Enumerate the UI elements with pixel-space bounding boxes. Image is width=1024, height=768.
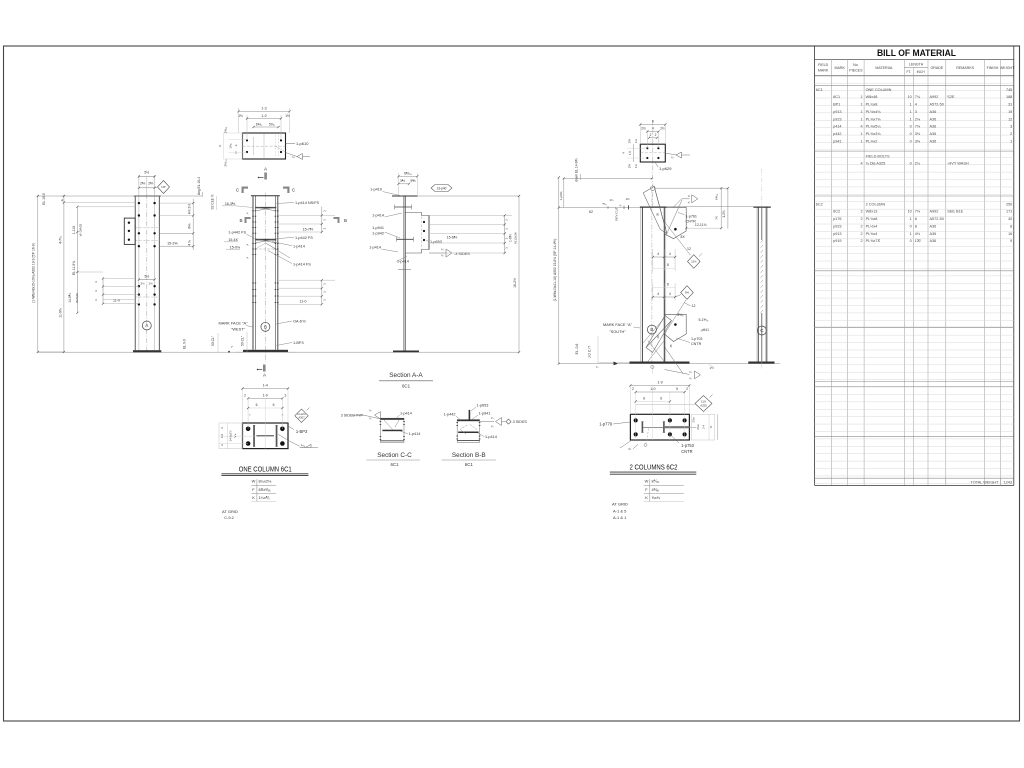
svg-text:6⅕₁: 6⅕₁ bbox=[256, 122, 263, 126]
svg-text:3⅗: 3⅗ bbox=[400, 179, 405, 183]
svg-text:1-p414: 1-p414 bbox=[409, 432, 421, 436]
svg-text:1-p442: 1-p442 bbox=[444, 413, 456, 417]
svg-text:2¼: 2¼ bbox=[915, 162, 921, 166]
svg-text:50 CL": 50 CL" bbox=[211, 335, 215, 346]
svg-text:LENGTH: LENGTH bbox=[909, 63, 924, 67]
svg-text:1½: 1½ bbox=[238, 114, 243, 118]
svg-text:8⅓₆: 8⅓₆ bbox=[678, 313, 685, 317]
svg-text:1-0: 1-0 bbox=[220, 434, 224, 439]
svg-text:6C1: 6C1 bbox=[390, 462, 399, 467]
svg-text:A36: A36 bbox=[930, 125, 937, 129]
svg-text:MARK FACE "A": MARK FACE "A" bbox=[603, 322, 633, 327]
svg-text:A-1 & 5: A-1 & 5 bbox=[613, 508, 627, 513]
svg-text:ONE COLUMN 6C1: ONE COLUMN 6C1 bbox=[239, 464, 292, 473]
svg-text:A36: A36 bbox=[930, 140, 937, 144]
svg-text:S2 CLE ½: S2 CLE ½ bbox=[211, 194, 215, 209]
svg-text:FINISH: FINISH bbox=[987, 66, 999, 70]
svg-text:W DIA25: W DIA25 bbox=[78, 224, 82, 237]
svg-text:0: 0 bbox=[910, 125, 912, 129]
svg-text:⅜x⅜: ⅜x⅜ bbox=[652, 495, 661, 500]
svg-text:A36: A36 bbox=[930, 117, 937, 121]
svg-text:A307: A307 bbox=[298, 416, 305, 420]
svg-text:1-p653: 1-p653 bbox=[477, 404, 489, 408]
svg-text:K: K bbox=[252, 495, 255, 500]
svg-text:BP1: BP1 bbox=[833, 103, 840, 107]
svg-text:4: 4 bbox=[61, 198, 63, 202]
svg-text:B: B bbox=[264, 324, 267, 329]
svg-text:1-BP3: 1-BP3 bbox=[296, 429, 308, 434]
svg-text:Section A-A: Section A-A bbox=[389, 372, 423, 379]
svg-text:1½: 1½ bbox=[628, 150, 632, 155]
svg-text:1-p414: 1-p414 bbox=[369, 246, 381, 250]
svg-text:0: 0 bbox=[910, 224, 912, 228]
svg-text:6: 6 bbox=[256, 403, 258, 407]
svg-text:p923: p923 bbox=[833, 117, 841, 121]
svg-text:188: 188 bbox=[1006, 95, 1012, 99]
svg-text:1: 1 bbox=[860, 132, 862, 136]
svg-text:15-7⅗: 15-7⅗ bbox=[303, 227, 314, 231]
svg-text:TOTAL WEIGHT: TOTAL WEIGHT bbox=[971, 481, 1000, 485]
svg-text:B: B bbox=[239, 218, 242, 223]
svg-text:2½: 2½ bbox=[660, 127, 665, 131]
svg-text:1-p414 NS/FS: 1-p414 NS/FS bbox=[295, 201, 320, 205]
svg-text:REMARKS: REMARKS bbox=[956, 66, 974, 70]
svg-text:A572-50: A572-50 bbox=[930, 217, 944, 221]
svg-text:2¾: 2¾ bbox=[141, 281, 146, 285]
svg-text:1-0: 1-0 bbox=[650, 387, 655, 391]
svg-text:8: 8 bbox=[1010, 224, 1012, 228]
svg-text:CNTR: CNTR bbox=[681, 449, 692, 454]
svg-text:2⅜₁₅: 2⅜₁₅ bbox=[224, 126, 228, 133]
svg-text:4½ 2½: 4½ 2½ bbox=[187, 204, 191, 215]
svg-text:1: 1 bbox=[910, 232, 912, 236]
svg-text:PIECES: PIECES bbox=[849, 69, 863, 73]
svg-text:2: 2 bbox=[860, 224, 862, 228]
svg-text:1-p941: 1-p941 bbox=[479, 412, 491, 416]
svg-text:2⅗: 2⅗ bbox=[148, 182, 153, 186]
svg-text:1⅗: 1⅗ bbox=[628, 139, 632, 144]
svg-text:A36: A36 bbox=[930, 224, 937, 228]
svg-text:1¼x2¼: 1¼x2¼ bbox=[297, 412, 307, 416]
svg-text:6C1: 6C1 bbox=[465, 462, 474, 467]
svg-text:EL 0-0: EL 0-0 bbox=[182, 339, 186, 349]
svg-text:NP: NP bbox=[161, 185, 165, 189]
svg-text:1: 1 bbox=[860, 95, 862, 99]
svg-text:11⅛: 11⅛ bbox=[691, 260, 697, 264]
svg-text:7Ⅹ: 7Ⅹ bbox=[715, 216, 719, 220]
svg-text:1243: 1243 bbox=[1004, 481, 1012, 485]
svg-text:1-p414: 1-p414 bbox=[372, 213, 384, 217]
svg-text:S2E: S2E bbox=[947, 95, 955, 99]
svg-text:W12x26: W12x26 bbox=[514, 232, 518, 244]
svg-text:1½: 1½ bbox=[285, 114, 290, 118]
svg-text:8Ⅹx⅙₆: 8Ⅹx⅙₆ bbox=[259, 487, 272, 492]
svg-text:1Ⅺ: 1Ⅺ bbox=[915, 239, 921, 243]
svg-text:↘↘: ↘↘ bbox=[233, 433, 237, 438]
svg-text:1¾: 1¾ bbox=[609, 198, 614, 202]
svg-text:PL⅜x2: PL⅜x2 bbox=[866, 140, 878, 144]
svg-text:2¾: 2¾ bbox=[149, 281, 154, 285]
svg-text:2⅕₁₅: 2⅕₁₅ bbox=[224, 159, 228, 167]
svg-text:2: 2 bbox=[860, 217, 862, 221]
svg-text:4: 4 bbox=[622, 152, 626, 154]
svg-text:2: 2 bbox=[860, 210, 862, 214]
svg-text:PL½x4: PL½x4 bbox=[866, 224, 878, 228]
svg-text:REV CUT: REV CUT bbox=[614, 207, 618, 221]
svg-text:6C2: 6C2 bbox=[833, 210, 840, 214]
svg-text:1-4: 1-4 bbox=[263, 384, 268, 388]
svg-text:15-4Ⅹ: 15-4Ⅹ bbox=[228, 238, 238, 242]
svg-text:2⅗: 2⅗ bbox=[140, 182, 145, 186]
svg-text:1-p753: 1-p753 bbox=[681, 443, 694, 448]
svg-text:1-0: 1-0 bbox=[263, 394, 268, 398]
svg-text:1-p653: 1-p653 bbox=[430, 240, 442, 244]
svg-text:62: 62 bbox=[589, 210, 593, 214]
svg-text:14-9⅗: 14-9⅗ bbox=[68, 293, 72, 303]
svg-text:W8x13: W8x13 bbox=[866, 210, 878, 214]
svg-text:2: 2 bbox=[244, 394, 246, 398]
svg-text:FT.: FT. bbox=[907, 70, 912, 74]
svg-text:INCH: INCH bbox=[917, 70, 926, 74]
svg-text:1-p6⅜: 1-p6⅜ bbox=[559, 191, 563, 200]
svg-text:11-0: 11-0 bbox=[300, 299, 307, 303]
svg-text:BILL OF MATERIAL: BILL OF MATERIAL bbox=[877, 48, 956, 59]
svg-text:Section C-C: Section C-C bbox=[377, 452, 412, 459]
svg-text:12: 12 bbox=[692, 304, 696, 308]
svg-text:1-p414 FS: 1-p414 FS bbox=[293, 262, 311, 266]
svg-text:5½: 5½ bbox=[145, 275, 150, 279]
svg-text:1-p442 FS: 1-p442 FS bbox=[228, 231, 246, 235]
svg-text:2: 2 bbox=[860, 239, 862, 243]
svg-text:FIELD BOLTS: FIELD BOLTS bbox=[866, 154, 890, 158]
svg-text:2: 2 bbox=[235, 151, 237, 155]
svg-text:30: 30 bbox=[656, 335, 660, 339]
svg-text:1-p629: 1-p629 bbox=[659, 166, 672, 171]
svg-text:50 CL": 50 CL" bbox=[241, 335, 245, 346]
svg-text:14-3x2½: 14-3x2½ bbox=[229, 430, 233, 442]
svg-text:6: 6 bbox=[915, 217, 917, 221]
svg-text:12: 12 bbox=[687, 247, 691, 251]
svg-text:SEE B1E: SEE B1E bbox=[947, 210, 963, 214]
svg-text:171: 171 bbox=[1006, 210, 1012, 214]
svg-text:2: 2 bbox=[1010, 132, 1012, 136]
svg-text:CNTR: CNTR bbox=[686, 219, 697, 223]
svg-text:A36: A36 bbox=[930, 239, 937, 243]
svg-text:EL 11-9¾: EL 11-9¾ bbox=[72, 261, 76, 275]
svg-text:-3 SIDES: -3 SIDES bbox=[512, 420, 528, 424]
svg-text:OA-6'½: OA-6'½ bbox=[293, 320, 307, 324]
svg-text:8⅕₆: 8⅕₆ bbox=[652, 479, 660, 484]
svg-text:15-2⅙: 15-2⅙ bbox=[167, 242, 178, 246]
svg-text:PL⅜x4: PL⅜x4 bbox=[866, 232, 878, 236]
svg-text:10: 10 bbox=[908, 95, 912, 99]
svg-text:p923: p923 bbox=[833, 224, 841, 228]
svg-text:7⅜: 7⅜ bbox=[915, 210, 921, 214]
svg-text:A36: A36 bbox=[930, 232, 937, 236]
svg-text:40: 40 bbox=[1008, 217, 1012, 221]
svg-text:1: 1 bbox=[910, 110, 912, 114]
svg-text:PL¾x8: PL¾x8 bbox=[866, 103, 878, 107]
svg-text:1¾: 1¾ bbox=[634, 138, 638, 143]
svg-text:1-p414: 1-p414 bbox=[485, 435, 497, 439]
svg-text:5⅜₀: 5⅜₀ bbox=[269, 122, 276, 126]
svg-text:3 SIDES TYP: 3 SIDES TYP bbox=[341, 414, 364, 418]
svg-text:¾ Dia A325: ¾ Dia A325 bbox=[866, 162, 886, 166]
svg-text:30: 30 bbox=[656, 213, 660, 217]
svg-text:6C1: 6C1 bbox=[833, 95, 840, 99]
svg-text:6⅙₆: 6⅙₆ bbox=[715, 193, 719, 200]
svg-text:3⅜: 3⅜ bbox=[915, 132, 921, 136]
svg-text:AT GRID: AT GRID bbox=[612, 502, 628, 507]
svg-text:1-p610: 1-p610 bbox=[296, 141, 309, 146]
svg-text:2 COLUMNS 6C2: 2 COLUMNS 6C2 bbox=[630, 463, 678, 472]
svg-text:0: 0 bbox=[910, 162, 912, 166]
svg-text:MATERIAL: MATERIAL bbox=[875, 66, 893, 70]
svg-text:1-6⅗: 1-6⅗ bbox=[509, 234, 513, 242]
svg-text:0: 0 bbox=[910, 239, 912, 243]
svg-text:1: 1 bbox=[910, 117, 912, 121]
svg-text:2: 2 bbox=[632, 387, 634, 391]
svg-text:K: K bbox=[645, 495, 648, 500]
svg-text:9: 9 bbox=[1010, 239, 1012, 243]
svg-text:11-9⅜: 11-9⅜ bbox=[58, 308, 62, 318]
svg-text:6C2: 6C2 bbox=[816, 202, 823, 206]
svg-text:p941: p941 bbox=[833, 140, 841, 144]
svg-text:1-p942: 1-p942 bbox=[372, 231, 384, 235]
svg-text:6: 6 bbox=[643, 397, 645, 401]
svg-text:EL -0-6: EL -0-6 bbox=[575, 343, 579, 354]
svg-text:2 COLUMN: 2 COLUMN bbox=[866, 202, 886, 206]
svg-text:ONE COLUMN: ONE COLUMN bbox=[866, 88, 892, 92]
svg-text:3: 3 bbox=[915, 110, 917, 114]
svg-text:1⅓₂: 1⅓₂ bbox=[229, 142, 233, 148]
svg-text:0: 0 bbox=[910, 132, 912, 136]
svg-text:6: 6 bbox=[273, 403, 275, 407]
svg-text:5½: 5½ bbox=[144, 171, 149, 175]
svg-text:31: 31 bbox=[1008, 103, 1012, 107]
svg-text:6⅙: 6⅙ bbox=[187, 223, 191, 228]
svg-text:W7x26: W7x26 bbox=[75, 293, 79, 303]
svg-text:p176: p176 bbox=[833, 217, 841, 221]
svg-text:Avg EL 16-4: Avg EL 16-4 bbox=[197, 177, 201, 195]
svg-text:9: 9 bbox=[652, 120, 654, 124]
svg-text:6⅗₁₆: 6⅗₁₆ bbox=[404, 172, 412, 176]
svg-text:1-2⅜: 1-2⅜ bbox=[722, 210, 726, 218]
svg-text:10: 10 bbox=[908, 210, 912, 214]
svg-text:1-p761: 1-p761 bbox=[686, 214, 697, 218]
svg-text:6: 6 bbox=[218, 145, 222, 147]
svg-text:1-p414: 1-p414 bbox=[293, 245, 305, 249]
svg-text:12: 12 bbox=[1008, 117, 1012, 121]
svg-text:CNTR: CNTR bbox=[691, 342, 702, 346]
svg-text:PL½x4⅛: PL½x4⅛ bbox=[866, 110, 882, 114]
svg-text:1: 1 bbox=[860, 117, 862, 121]
svg-text:1¼x⅗: 1¼x⅗ bbox=[259, 495, 270, 500]
svg-text:1: 1 bbox=[860, 110, 862, 114]
svg-text:GRADE: GRADE bbox=[931, 66, 944, 70]
svg-text:1⅜: 1⅜ bbox=[625, 197, 630, 201]
svg-text:8: 8 bbox=[667, 263, 669, 267]
svg-text:5: 5 bbox=[676, 387, 678, 391]
svg-text:p442: p442 bbox=[833, 132, 841, 136]
svg-text:0: 0 bbox=[910, 140, 912, 144]
svg-text:7¾: 7¾ bbox=[915, 95, 921, 99]
svg-text:MARK FACE "A": MARK FACE "A" bbox=[219, 321, 249, 326]
svg-text:6C1: 6C1 bbox=[816, 88, 823, 92]
svg-text:7⅜: 7⅜ bbox=[915, 125, 921, 129]
svg-text:PL⅜x5¼: PL⅜x5¼ bbox=[866, 125, 882, 129]
svg-text:12-11⅛: 12-11⅛ bbox=[695, 223, 707, 227]
svg-text:3 4: 3 4 bbox=[702, 425, 706, 429]
svg-text:4: 4 bbox=[652, 127, 654, 131]
svg-text:4 ⅛: 4 ⅛ bbox=[187, 240, 191, 246]
svg-text:4: 4 bbox=[235, 144, 237, 148]
svg-text:(1-W8x48x15-10¾) A992 19-9 (5': (1-W8x48x15-10¾) A992 19-9 (5'P 16-9) bbox=[31, 243, 35, 302]
svg-text:down EL 14-9⅗: down EL 14-9⅗ bbox=[574, 158, 578, 181]
svg-text:1: 1 bbox=[910, 217, 912, 221]
svg-text:-3 SIDES: -3 SIDES bbox=[454, 252, 470, 256]
svg-text:p919: p919 bbox=[833, 239, 841, 243]
svg-text:W: W bbox=[645, 479, 649, 484]
svg-text:3: 3 bbox=[1010, 125, 1012, 129]
svg-text:3⅜: 3⅜ bbox=[915, 140, 921, 144]
svg-text:p913: p913 bbox=[833, 232, 841, 236]
svg-text:"WEST": "WEST" bbox=[231, 327, 246, 332]
svg-text:5⅗: 5⅗ bbox=[410, 179, 415, 183]
svg-text:1: 1 bbox=[860, 140, 862, 144]
svg-text:1-p442 FS: 1-p442 FS bbox=[295, 236, 313, 240]
svg-text:AT GRID: AT GRID bbox=[222, 509, 238, 514]
svg-text:8: 8 bbox=[667, 283, 669, 287]
svg-text:4⅛: 4⅛ bbox=[915, 232, 921, 236]
svg-text:1-BP3: 1-BP3 bbox=[293, 341, 304, 345]
svg-text:4: 4 bbox=[669, 252, 671, 256]
svg-text:2: 2 bbox=[686, 387, 688, 391]
svg-text:1-3: 1-3 bbox=[261, 107, 266, 111]
svg-text:1-p941: 1-p941 bbox=[372, 226, 384, 230]
svg-text:W: W bbox=[252, 479, 256, 484]
svg-text:1-p779: 1-p779 bbox=[599, 421, 612, 426]
svg-text:1⅗: 1⅗ bbox=[628, 164, 632, 169]
svg-text:4-7¾: 4-7¾ bbox=[58, 236, 62, 244]
svg-text:A992: A992 bbox=[930, 95, 939, 99]
svg-text:4: 4 bbox=[669, 292, 671, 296]
svg-text:A325: A325 bbox=[700, 404, 707, 408]
svg-text:FIELD: FIELD bbox=[818, 63, 829, 67]
svg-text:PL⅜x7Ⅹ: PL⅜x7Ⅹ bbox=[866, 239, 881, 243]
svg-text:J.O C./T: J.O C./T bbox=[588, 346, 592, 358]
svg-text:15-0⅜: 15-0⅜ bbox=[230, 245, 240, 249]
svg-text:2⅛: 2⅛ bbox=[915, 117, 921, 121]
svg-text:1-11Ⅹ: 1-11Ⅹ bbox=[72, 226, 76, 235]
svg-text:MARK: MARK bbox=[834, 66, 845, 70]
svg-text:1: 1 bbox=[1010, 140, 1012, 144]
svg-text:(1-W8x13x11-1Ⅹ) A992 15-8⅜ (5': (1-W8x13x11-1Ⅹ) A992 15-8⅜ (5'P 14-4⅗) bbox=[553, 239, 557, 302]
svg-text:A36: A36 bbox=[930, 110, 937, 114]
svg-text:2: 2 bbox=[860, 232, 862, 236]
svg-text:1½x: 1½x bbox=[692, 417, 696, 423]
svg-text:p414: p414 bbox=[833, 125, 841, 129]
svg-text:W8x48: W8x48 bbox=[866, 95, 878, 99]
svg-text:-p941: -p941 bbox=[701, 328, 710, 332]
svg-text:C-9.2: C-9.2 bbox=[224, 515, 235, 520]
svg-text:WEIGHT: WEIGHT bbox=[1000, 66, 1015, 70]
svg-text:1¾: 1¾ bbox=[634, 163, 638, 168]
svg-text:745: 745 bbox=[1006, 88, 1012, 92]
svg-text:EL 19-9: EL 19-9 bbox=[42, 193, 46, 205]
svg-text:No.: No. bbox=[853, 63, 859, 67]
svg-text:A-1 & 1: A-1 & 1 bbox=[613, 515, 627, 520]
svg-text:"SOUTH": "SOUTH" bbox=[609, 329, 626, 334]
svg-text:13-p40: 13-p40 bbox=[437, 186, 447, 190]
svg-text:1: 1 bbox=[860, 103, 862, 107]
svg-text:-HVY WASH: -HVY WASH bbox=[947, 162, 969, 166]
svg-text:3: 3 bbox=[284, 394, 286, 398]
svg-text:4: 4 bbox=[915, 103, 917, 107]
svg-text:9⅜: 9⅜ bbox=[685, 291, 690, 295]
svg-text:2¾x: 2¾x bbox=[696, 424, 700, 430]
svg-text:4⅙₆: 4⅙₆ bbox=[652, 487, 660, 492]
svg-text:19: 19 bbox=[1008, 110, 1012, 114]
svg-text:A572-50: A572-50 bbox=[930, 103, 944, 107]
svg-text:15-6⅗: 15-6⅗ bbox=[447, 235, 458, 239]
svg-text:1-p410: 1-p410 bbox=[370, 188, 382, 192]
svg-text:p913: p913 bbox=[833, 110, 841, 114]
svg-text:250: 250 bbox=[1006, 202, 1012, 206]
svg-text:4: 4 bbox=[860, 162, 862, 166]
svg-text:A992: A992 bbox=[930, 210, 939, 214]
svg-text:2½: 2½ bbox=[641, 127, 646, 131]
svg-text:2: 2 bbox=[655, 133, 657, 137]
svg-text:1: 1 bbox=[910, 103, 912, 107]
svg-text:B: B bbox=[344, 218, 347, 223]
svg-text:4: 4 bbox=[657, 252, 659, 256]
svg-text:1-p703: 1-p703 bbox=[691, 337, 702, 341]
svg-text:1½: 1½ bbox=[709, 366, 714, 370]
svg-text:1-p414: 1-p414 bbox=[400, 411, 412, 415]
svg-text:16: 16 bbox=[1008, 232, 1012, 236]
svg-text:PL¾x8: PL¾x8 bbox=[866, 217, 878, 221]
svg-text:1-0: 1-0 bbox=[261, 114, 266, 118]
svg-text:PL⅜x3¾: PL⅜x3¾ bbox=[866, 132, 882, 136]
svg-text:1-9: 1-9 bbox=[657, 381, 662, 385]
svg-text:8Ⅹ: 8Ⅹ bbox=[681, 235, 685, 239]
svg-text:5-1⅕₆: 5-1⅕₆ bbox=[699, 318, 709, 322]
svg-text:A36: A36 bbox=[930, 132, 937, 136]
svg-text:MARK: MARK bbox=[818, 69, 829, 73]
svg-text:4: 4 bbox=[860, 125, 862, 129]
svg-text:16-3⅗: 16-3⅗ bbox=[225, 202, 236, 206]
svg-text:45: 45 bbox=[669, 344, 673, 348]
svg-text:16-2½: 16-2½ bbox=[513, 278, 517, 288]
svg-text:B: B bbox=[650, 327, 653, 332]
svg-text:PL⅜x7⅜: PL⅜x7⅜ bbox=[866, 117, 882, 121]
svg-text:4: 4 bbox=[657, 292, 659, 296]
svg-text:8: 8 bbox=[915, 224, 917, 228]
svg-text:Section B-B: Section B-B bbox=[452, 452, 486, 459]
svg-text:6C1: 6C1 bbox=[402, 384, 411, 389]
svg-text:8¼x2⅛: 8¼x2⅛ bbox=[259, 479, 273, 484]
svg-text:6: 6 bbox=[660, 397, 662, 401]
